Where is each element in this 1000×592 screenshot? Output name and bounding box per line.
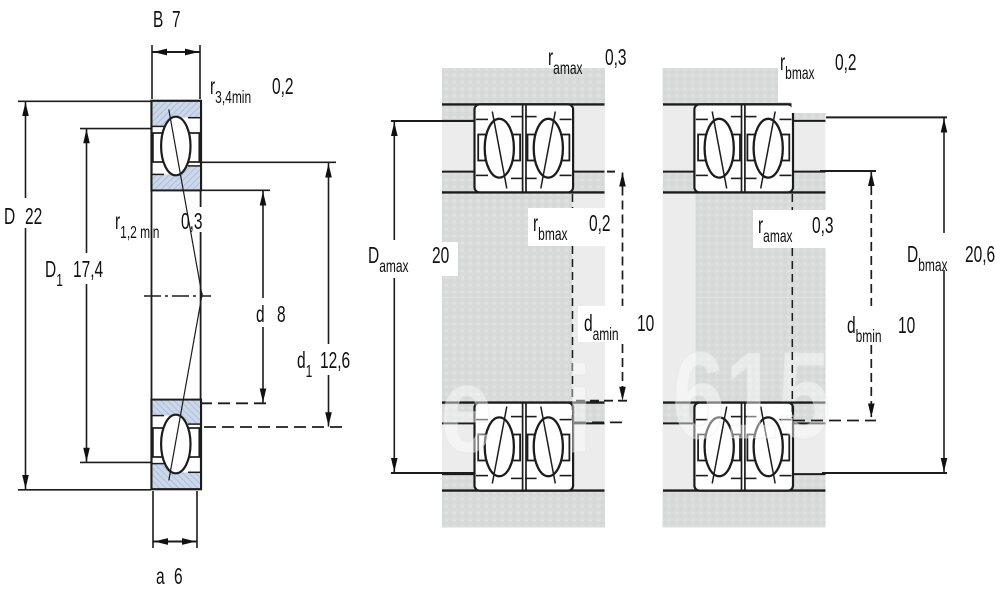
dim D: arrow down [22, 475, 29, 489]
dim d: arrow up [260, 192, 267, 206]
dim d1: arrow down [325, 412, 332, 426]
dim d: dimension line upper part [262, 191, 264, 298]
svg-text:B7: B7 [153, 7, 181, 33]
mounting bottom half [442, 298, 605, 527]
dim a: dimension line [153, 541, 197, 543]
dim Dbmax: dimension line upper part [943, 118, 945, 233]
svg-text:Dbmax20,6: Dbmax20,6 [907, 242, 995, 276]
dim D1: arrow up [83, 129, 90, 143]
label rbmax 0,2 background [528, 208, 620, 246]
dim a: extension line right [196, 491, 198, 548]
rbmax corner extension (dashed vertical) upper [572, 194, 574, 208]
dim damin: dimension line (dashed) upper [622, 173, 624, 307]
dim D: dimension line lower part [25, 228, 27, 490]
dim a: extension line left [152, 491, 154, 548]
dim B: arrow right [185, 49, 199, 56]
bore surface line left [151, 191, 153, 400]
dim D: extension line bottom [18, 489, 151, 491]
ramax corner extension (dashed vertical) lower [791, 248, 793, 418]
bearing section bottom half [152, 293, 203, 489]
svg-text:a6: a6 [156, 564, 183, 590]
mounting top half [442, 68, 605, 297]
light backdrop column [442, 68, 605, 528]
ramax corner extension (dashed vertical) upper [791, 194, 793, 210]
dim Damax: dimension line upper part [393, 122, 395, 241]
dim B: extension line left [151, 45, 153, 99]
bore surface line right upper [200, 191, 202, 207]
dim d: dimension line lower part [262, 327, 264, 403]
dim Dbmax: arrow down [941, 458, 948, 472]
label Damax 20 background [366, 242, 458, 276]
dim B: extension line right [199, 45, 201, 99]
dim damin: bottom extension (dashed) [576, 400, 630, 402]
dim a: arrow left [154, 538, 168, 545]
mounting bottom half mirrored [663, 298, 826, 527]
mounting top half mirrored [663, 68, 826, 297]
dim d: extension line top [202, 189, 270, 191]
label damin 10 background [578, 306, 660, 342]
svg-text:r1,2 min0,3: r1,2 min0,3 [115, 209, 203, 243]
shoulder level dashed line bottom right [574, 421, 627, 423]
dim Damax: arrow up [391, 122, 398, 136]
dim Dbmax: arrow up [941, 119, 948, 133]
dim a: arrow right [182, 538, 196, 545]
dim D1: dimension line lower part [86, 284, 88, 462]
dim Dbmax: dimension line lower part [943, 270, 945, 473]
dim D: extension line top [18, 100, 151, 102]
dim Damax: extension line top [391, 120, 474, 122]
dim B: arrow left [153, 49, 167, 56]
dim dbmin: arrow up [868, 172, 875, 186]
dim Damax: dimension line lower part [393, 278, 395, 473]
dim d1: arrow up [325, 164, 332, 178]
dim dbmin: dimension line (dashed) lower [870, 345, 872, 417]
dim damin: dimension line (dashed) lower [622, 344, 624, 401]
rbmax corner extension (dashed vertical) lower [572, 246, 574, 420]
svg-text:r3,4min0,2: r3,4min0,2 [210, 74, 294, 108]
dim D1: arrow down [83, 448, 90, 462]
dim D: arrow up [22, 102, 29, 116]
bearing section top half [152, 101, 203, 297]
label dbmin 10 background [842, 306, 924, 344]
dim dbmin: arrow down [868, 404, 875, 418]
dim Damax: extension line bottom [391, 472, 474, 474]
dim D1: dimension line upper part [86, 129, 88, 253]
svg-text:d112,6: d112,6 [297, 348, 350, 382]
dim Dbmax: extension line top [826, 116, 947, 118]
dim D1: extension line top [80, 128, 151, 130]
dim d1: dimension line lower part [328, 375, 330, 427]
dim Damax: arrow down [391, 458, 398, 472]
dim dbmin: extension line top [820, 170, 876, 172]
dim D1: extension line bottom [80, 461, 151, 463]
dim d1: dimension line upper part [328, 163, 330, 344]
light backdrop column right [663, 68, 826, 528]
dim damin: arrow down [619, 387, 626, 401]
dim d: arrow down [260, 389, 267, 403]
dim dbmin: dimension line (dashed) upper [870, 172, 872, 308]
svg-text:e: e [440, 341, 493, 479]
axis center line [144, 295, 211, 297]
svg-text:615: 615 [672, 327, 830, 465]
dim dbmin: bottom extension (dashed) [793, 420, 876, 422]
label ramax 0,3 background (right) [753, 210, 845, 248]
dim d1: extension line bottom (dashed) [204, 426, 348, 428]
white patch behind right top label [778, 42, 833, 102]
watermark glyphs [440, 327, 830, 479]
svg-text:D117,4: D117,4 [45, 257, 103, 291]
dim damin: extension dash right of shaft shoulder [607, 171, 618, 173]
dim d: extension line bottom (dashed) [200, 402, 271, 404]
svg-text:d8: d8 [256, 302, 286, 328]
dim B: dimension line [152, 51, 200, 53]
dim D: dimension line upper part [25, 102, 27, 199]
dim damin: arrow up [619, 173, 626, 187]
bore surface line right lower [200, 232, 202, 400]
dim d1: extension line top [202, 161, 336, 163]
dim Dbmax: extension line bottom [822, 472, 947, 474]
svg-text:D22: D22 [4, 204, 42, 230]
svg-text:i: i [566, 341, 592, 479]
